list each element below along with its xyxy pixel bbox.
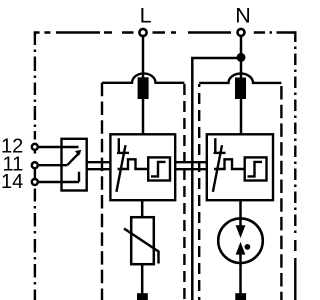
svg-text:L: L — [140, 3, 152, 27]
svg-text:14: 14 — [1, 171, 23, 193]
svg-text:N: N — [235, 3, 251, 27]
